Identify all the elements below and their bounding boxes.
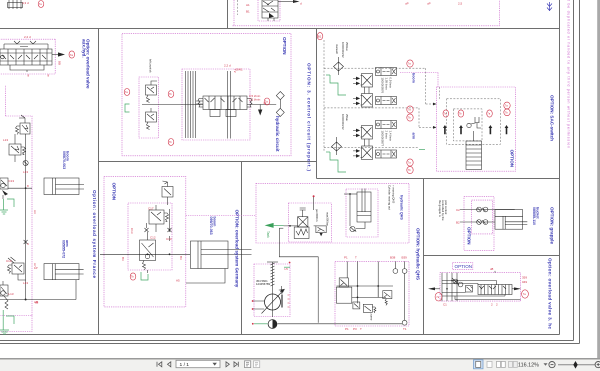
svg-text:P1: P1 — [345, 327, 349, 331]
svg-text:116.12%: 116.12% — [518, 363, 539, 369]
sheet section border: vertical x241 — [241, 162, 243, 335]
svg-text:T1: T1 — [403, 327, 407, 331]
overload valve block aux.hyd: dashed box — [0, 39, 55, 74]
svg-text:359: 359 — [522, 275, 527, 279]
svg-text:OPTION: 3. control circuit (pr: OPTION: 3. control circuit (proport.) — [307, 63, 312, 171]
svg-text:1000000232: 1000000232 — [341, 42, 345, 58]
relief valve mid-left with gauge — [0, 178, 8, 199]
big option dashed box top (cut) — [233, 0, 500, 26]
svg-text:C13: C13 — [166, 237, 172, 241]
svg-text:7a: 7a — [70, 53, 74, 57]
link line pump — [284, 225, 316, 227]
heater ladder — [466, 131, 482, 170]
zoom out circle — [549, 362, 555, 368]
red bubbles — [443, 110, 449, 117]
sheet trim edge right x579.8 — [579, 0, 581, 344]
svg-text:T: T — [355, 255, 357, 259]
svg-text:B1: B1 — [318, 34, 322, 38]
reducing valve — [149, 205, 169, 232]
svg-text:pom500m: pom500m — [315, 209, 319, 222]
svg-text:2 l/min: 2 l/min — [385, 131, 389, 140]
svg-text:P3: P3 — [353, 327, 357, 331]
svg-text:OPTION: OPTION — [112, 183, 117, 201]
QHS cylinder — [356, 189, 371, 229]
metering box boom B — [376, 97, 397, 105]
filter diamond arm — [332, 137, 342, 155]
svg-text:d8: d8 — [35, 301, 39, 305]
arrowheads into SAC — [433, 103, 437, 129]
green tank mark — [141, 272, 148, 280]
wire: vertical line with check valve — [25, 134, 27, 300]
motor output line to port — [278, 323, 403, 325]
port circle bottom — [402, 320, 407, 325]
svg-text:Option: overload valve 3. hc: Option: overload valve 3. hc — [548, 258, 553, 329]
relief valve bottom left — [0, 281, 8, 309]
svg-text:2,2 d: 2,2 d — [24, 35, 31, 39]
black dashed relay box inner — [453, 109, 482, 141]
interconnect wires — [442, 281, 521, 300]
svg-text:T2: T2 — [233, 69, 237, 73]
channel lines — [186, 71, 196, 138]
box L3 dashed bottom (tank) — [0, 316, 32, 332]
green signal steps arm — [330, 152, 346, 172]
pilot dashed line vertical — [323, 40, 325, 151]
filter diamond boom — [334, 57, 344, 75]
feed lines — [347, 261, 378, 303]
QHS feed wires — [344, 193, 357, 195]
svg-text:left joystick: left joystick — [149, 59, 153, 73]
red bubbles pair mid — [407, 106, 413, 113]
slider track — [558, 364, 595, 366]
switch symbol — [467, 123, 471, 127]
down arrow — [258, 110, 262, 116]
svg-text:L13: L13 — [3, 138, 8, 142]
svg-text:C12: C12 — [150, 236, 156, 240]
boom cylinder left — [44, 178, 84, 195]
pressure valve L2b — [9, 134, 26, 162]
joystick valve 2 — [146, 108, 157, 130]
svg-text:Cylinder moving out: Cylinder moving out — [388, 185, 392, 210]
valve interconnect lines — [365, 87, 370, 146]
green tick — [419, 149, 425, 151]
svg-text:L5: L5 — [285, 267, 289, 271]
red ref bubble 7a — [69, 51, 75, 58]
sheet section border: vertical x423 — [423, 179, 425, 335]
layout icons — [474, 360, 484, 369]
doc view icons — [245, 361, 251, 368]
svg-text:B3: B3 — [179, 256, 183, 260]
metering box boom A — [376, 68, 397, 76]
svg-text:+ moving QHS: + moving QHS — [392, 185, 396, 203]
metering box arm B — [376, 150, 397, 158]
motor circle — [268, 320, 277, 329]
svg-text:uP: uP — [427, 2, 431, 6]
svg-text:095/70-063: 095/70-063 — [209, 217, 213, 235]
svg-text:B38: B38 — [390, 255, 396, 259]
green tank line bottom left — [0, 310, 9, 334]
svg-text:uP: uP — [405, 2, 409, 6]
left arrow — [435, 288, 440, 290]
svg-text:OPTION: OPTION — [467, 227, 472, 245]
valve 4 — [383, 291, 392, 306]
svg-text:A7: A7 — [33, 263, 37, 267]
svg-text:L13: L13 — [23, 281, 28, 285]
main valve — [140, 232, 156, 273]
bottom-left dashed box (pump unit) — [254, 264, 290, 317]
valve block assembly — [0, 41, 52, 72]
svg-text:OPTION: SAC-switch: OPTION: SAC-switch — [550, 95, 555, 141]
sheet section border: horizontal y256 grapple/overload divider — [424, 255, 560, 257]
sheet section border: vertical x316 — [316, 29, 318, 179]
option box L2 dashed — [0, 116, 32, 316]
green tank mid-left — [0, 199, 8, 214]
relief valve L2a — [16, 115, 31, 135]
svg-text:Option: overload system Franc: Option: overload system France — [92, 190, 97, 278]
enclosure pipe — [279, 228, 318, 323]
green line left — [254, 323, 268, 325]
svg-text:A5: A5 — [176, 279, 180, 283]
svg-text:C13: C13 — [130, 228, 134, 234]
spool cartridge — [478, 285, 512, 295]
pilot dashed lines horizontal — [324, 68, 426, 148]
svg-text:1000000212: 1000000212 — [341, 114, 345, 130]
svg-text:OPTION: OPTION — [282, 37, 287, 55]
green bracket — [125, 104, 130, 112]
inner dashed box — [128, 203, 172, 270]
joystick valve 1 — [146, 81, 158, 103]
line to test points — [247, 104, 276, 106]
tank symbol — [279, 286, 285, 293]
right arrow out — [512, 288, 514, 290]
prop valve boom B — [353, 94, 373, 108]
grapple cylinder — [495, 210, 527, 230]
option dashed box top (cut) — [233, 0, 235, 26]
svg-text:C1: C1 — [443, 303, 447, 307]
QHS small valve — [350, 226, 357, 231]
red ref bubble — [38, 1, 44, 8]
svg-text:t be duplicated or handed to a: t be duplicated or handed to any third p… — [567, 0, 571, 148]
svg-text:1000000576: 1000000576 — [381, 78, 385, 94]
svg-text:OPTION: OPTION — [510, 150, 515, 168]
valve V0 in top box — [262, 0, 278, 21]
magenta connector M1-QHS — [186, 215, 256, 217]
junction dots — [25, 299, 27, 301]
svg-text:arm: arm — [412, 133, 416, 140]
svg-text:0,9 l/min: 0,9 l/min — [389, 78, 393, 89]
wires — [460, 210, 515, 223]
red bubble right — [264, 98, 270, 105]
connection line through — [100, 253, 190, 255]
check valves X — [145, 223, 149, 232]
svg-text:123456789: 123456789 — [256, 282, 270, 286]
shuttle valve right — [316, 212, 330, 236]
wire joystick to manifold — [142, 104, 203, 106]
manifold bus lines — [228, 71, 231, 139]
sheet section border: middle horizontal y162 — [99, 161, 317, 163]
small pilot valve — [466, 286, 473, 293]
arrow to port — [52, 54, 58, 56]
svg-text:d8: d8 — [490, 267, 494, 271]
sheet section border: top horizontal — [0, 28, 560, 30]
connecting wires — [336, 286, 393, 297]
pilot circles — [452, 278, 463, 287]
red bubbles — [124, 89, 130, 96]
svg-text:2,3 l/min: 2,3 l/min — [249, 98, 261, 102]
grapple option dashed box — [464, 197, 494, 251]
svg-text:pilot control: pilot control — [444, 200, 448, 215]
supply line from top — [313, 197, 315, 210]
svg-text:C13: C13 — [6, 259, 12, 263]
sheet inner frame right x573.6 — [573, 0, 575, 341]
arm cylinder left — [0, 264, 84, 300]
toolbar background — [0, 359, 600, 371]
svg-text:1,4 l/min: 1,4 l/min — [389, 131, 393, 142]
relief valve top — [162, 181, 173, 205]
enclosure rect — [336, 287, 351, 303]
svg-text:aux.hyd.: aux.hyd. — [81, 39, 86, 58]
svg-text:hydraulic QHS: hydraulic QHS — [400, 195, 404, 220]
svg-text:1 / 1: 1 / 1 — [180, 362, 190, 368]
red bubble right — [522, 290, 529, 298]
svg-text:250bar: 250bar — [345, 42, 349, 51]
bottom-middle dashed box — [335, 261, 409, 326]
blue flow symbol — [547, 2, 552, 11]
svg-text:OPTION: overload system German: OPTION: overload system Germany — [235, 210, 240, 288]
prop valve arm A — [353, 126, 373, 140]
sheet border right x560 — [559, 0, 561, 335]
metering box arm A — [376, 121, 397, 129]
svg-text:OPTION: OPTION — [455, 264, 473, 269]
slider knob — [573, 361, 577, 369]
svg-text:Tank: Tank — [266, 231, 270, 238]
reducing valve lower-left — [8, 257, 26, 280]
prop valve boom A — [353, 74, 373, 88]
svg-text:049: 049 — [522, 280, 527, 284]
pump inner dashed box — [289, 203, 332, 242]
pilot dashed stub — [237, 0, 239, 15]
QHS cylinder inner dashed box — [346, 189, 378, 237]
green tick — [284, 266, 290, 268]
up arrows — [443, 125, 447, 134]
svg-text:OPTION: grapple: OPTION: grapple — [550, 207, 555, 244]
green tank arrow — [274, 224, 284, 226]
valve 3 — [363, 304, 376, 313]
hand pump — [294, 208, 309, 239]
red tick marks — [288, 295, 290, 307]
svg-text:085/55-110: 085/55-110 — [532, 207, 536, 225]
red bubble B1 — [317, 33, 323, 40]
sheet inner frame bottom y341 — [0, 340, 574, 342]
valve 1 — [339, 278, 348, 287]
svg-text:4,3 d: 4,3 d — [22, 1, 29, 5]
svg-text:max300bar: max300bar — [326, 212, 330, 226]
svg-text:B1: B1 — [246, 10, 250, 14]
green signal steps boom — [330, 75, 346, 95]
red bubble boom — [407, 60, 413, 67]
wire to arrow — [278, 1, 293, 3]
svg-text:OPTION: hydraulic QHS: OPTION: hydraulic QHS — [416, 228, 421, 280]
SAC option dashed box — [437, 87, 516, 171]
svg-text:zumo: zumo — [370, 314, 374, 321]
svg-text:T: T — [360, 327, 362, 331]
zoom in circle — [595, 362, 600, 368]
svg-text:2,2 d: 2,2 d — [224, 64, 231, 68]
orifice circles — [477, 207, 482, 212]
inner dashed box manifold — [182, 69, 250, 140]
red bubbles pair bottom — [407, 159, 413, 166]
port circles top — [393, 269, 398, 274]
svg-text:B2: B2 — [456, 221, 460, 225]
red bubble — [130, 273, 136, 280]
svg-text:095/55-072: 095/55-072 — [62, 240, 66, 258]
QHS outer dashed box — [256, 183, 409, 243]
sheet section border: bottom y335 — [0, 334, 560, 336]
black dashed relay box outer — [447, 99, 501, 145]
OPTION dashed box 3.hydraulic circuit — [122, 33, 291, 156]
svg-text:25bar: 25bar — [345, 114, 349, 121]
check mark on riser — [24, 240, 28, 244]
variable pump circle — [265, 294, 281, 310]
svg-text:C2: C2 — [456, 208, 460, 212]
OPTION label box — [453, 263, 473, 270]
svg-text:manuell: manuell — [335, 44, 339, 54]
svg-text:boom: boom — [412, 73, 416, 83]
page combo box — [176, 360, 220, 367]
svg-text:L13: L13 — [23, 170, 28, 174]
magenta connector to boom corner — [400, 73, 438, 88]
red bubble left — [435, 293, 442, 301]
inner dashed box joystick — [139, 77, 159, 138]
svg-text:2,5: 2,5 — [458, 2, 463, 6]
sheet section border: left column right edge — [98, 29, 100, 335]
spool valve assembly — [196, 96, 252, 117]
option box M1 dashed — [104, 176, 186, 307]
svg-text:B39: B39 — [402, 255, 408, 259]
svg-text:1,05 l/min: 1,05 l/min — [385, 78, 389, 91]
nav: first page icon — [157, 362, 171, 367]
coupling bars — [281, 295, 282, 308]
sheet section border: vertical divider top strip — [227, 0, 229, 29]
channel lines — [442, 273, 457, 301]
3.hc dashed box — [440, 273, 521, 301]
sheet section border: horizontal y178 — [317, 178, 560, 180]
boom cylinder M — [186, 241, 252, 283]
prop valve arm B — [353, 146, 373, 160]
cut-off schematic fragment top-left — [9, 0, 21, 9]
svg-text:hydraulic circuit: hydraulic circuit — [275, 116, 280, 152]
test point diamonds — [276, 92, 284, 100]
suction lines — [253, 301, 265, 309]
svg-text:C13: C13 — [9, 179, 15, 183]
svg-text:P1: P1 — [344, 255, 348, 259]
svg-text:A3: A3 — [33, 210, 37, 214]
inner dashed box — [472, 200, 493, 234]
right window edge strip — [597, 0, 600, 359]
drive shaft with hatches — [272, 262, 274, 317]
svg-text:1000000577: 1000000577 — [381, 131, 385, 147]
svg-text:095/70-063: 095/70-063 — [62, 151, 66, 169]
svg-text:B3: B3 — [121, 257, 125, 261]
svg-text:L13: L13 — [9, 292, 14, 296]
svg-text:BB: BB — [58, 61, 62, 65]
nav: next page icon — [226, 362, 238, 367]
svg-text:A1: A1 — [246, 3, 250, 7]
toolbar top border — [0, 358, 600, 360]
valve 2 — [353, 302, 360, 309]
sheet trim edge bottom y343 — [0, 343, 580, 345]
wire to option box — [8, 187, 32, 189]
